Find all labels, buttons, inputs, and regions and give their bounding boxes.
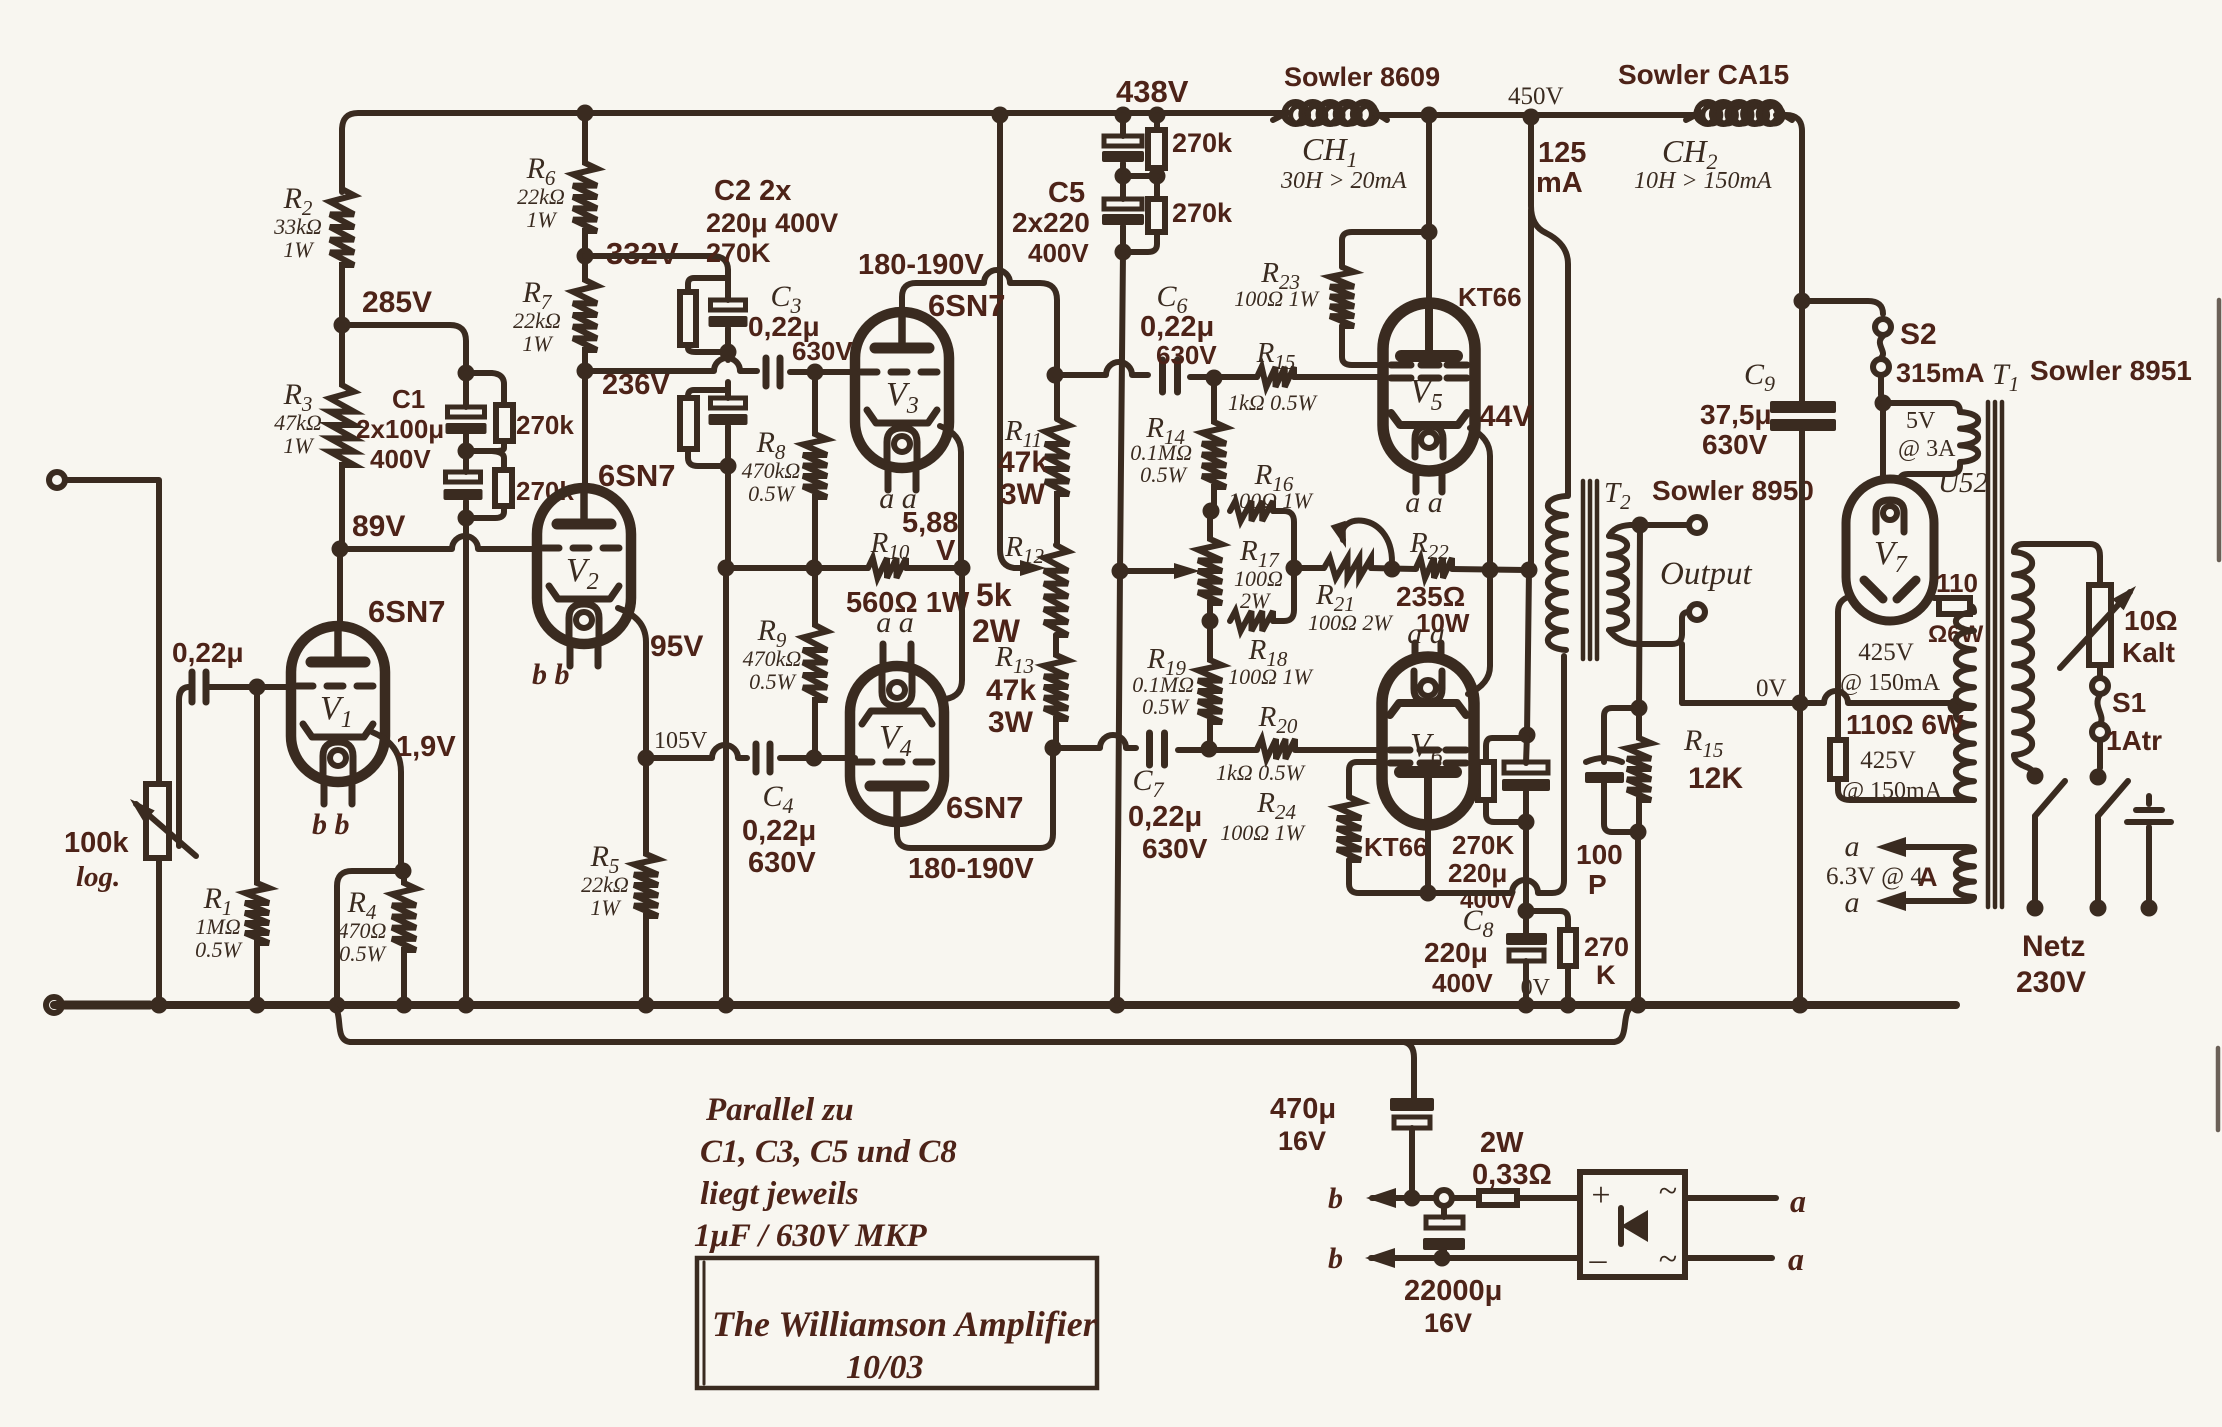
resistor 270k bleeder at C8 <box>1526 911 1568 930</box>
wire: heater loop 5V <box>1880 403 1886 479</box>
svg-text:37,5μ: 37,5μ <box>1700 399 1772 430</box>
transformer T1 HV winding <box>1956 612 1974 800</box>
svg-text:Parallel zu: Parallel zu <box>705 1092 854 1128</box>
svg-text:100k: 100k <box>64 827 129 859</box>
capacitor 100p <box>1604 708 1639 762</box>
resistor R3 47k <box>330 325 354 549</box>
svg-text:0.5W: 0.5W <box>1140 462 1188 487</box>
svg-text:0,33Ω: 0,33Ω <box>1472 1159 1552 1191</box>
wire: V4 anode line 180-190V <box>897 748 1053 848</box>
svg-text:0,22μ: 0,22μ <box>1140 311 1214 343</box>
svg-text:Kalt: Kalt <box>2122 637 2175 668</box>
svg-text:3W: 3W <box>1000 478 1046 511</box>
svg-text:a a: a a <box>876 606 914 639</box>
svg-text:@ 3A: @ 3A <box>1898 436 1956 462</box>
svg-text:22kΩ: 22kΩ <box>517 184 565 209</box>
svg-text:Output: Output <box>1660 556 1753 592</box>
svg-text:47kΩ: 47kΩ <box>274 410 322 435</box>
svg-text:270k: 270k <box>516 410 574 440</box>
svg-text:1W: 1W <box>283 237 314 262</box>
pot arrow R21 <box>1342 521 1392 562</box>
svg-text:1W: 1W <box>590 895 621 920</box>
title box The Williamson Amplifier <box>697 1258 1097 1388</box>
capacitor input 0.22u <box>189 672 196 702</box>
wire: 0V line to HV centre tap <box>1679 644 1685 703</box>
wire: 450V riser and T2 feed <box>1531 117 1568 496</box>
capacitor C8 220u 400V <box>1518 903 1535 920</box>
svg-text:a: a <box>1788 1241 1804 1277</box>
svg-text:2W: 2W <box>1240 588 1271 613</box>
svg-text:220μ: 220μ <box>1448 858 1507 888</box>
svg-text:0,22μ: 0,22μ <box>742 815 816 847</box>
svg-text:315mA: 315mA <box>1896 358 1985 388</box>
svg-text:470kΩ: 470kΩ <box>743 646 802 671</box>
resistor 270k at KT66 cathode <box>1486 738 1527 762</box>
resistor R21 100R 2W <box>1324 558 1371 578</box>
svg-text:89V: 89V <box>352 510 405 543</box>
wire: R15 12k column from output top <box>1639 525 1640 708</box>
svg-text:110Ω 6W: 110Ω 6W <box>1846 709 1964 740</box>
svg-text:630V: 630V <box>748 847 816 879</box>
wire: feedback return line <box>330 1005 1404 1042</box>
svg-text:0.5W: 0.5W <box>748 481 796 506</box>
wire: HT right riser to S2 <box>1794 293 1811 310</box>
svg-text:Netz: Netz <box>2022 930 2085 963</box>
svg-text:10H > 150mA: 10H > 150mA <box>1634 168 1772 194</box>
svg-text:30H > 20mA: 30H > 20mA <box>1280 168 1407 194</box>
svg-text:270K: 270K <box>706 238 771 268</box>
svg-text:a a: a a <box>1407 617 1445 650</box>
resistor R10 560R <box>868 558 906 578</box>
wire: 105V line to C4 <box>646 745 747 758</box>
svg-text:400V: 400V <box>1432 968 1493 998</box>
svg-text:47k: 47k <box>998 446 1048 479</box>
svg-text:log.: log. <box>76 861 120 893</box>
wire: screen line to R21 R22 <box>1294 565 1324 571</box>
tube V4 6SN7 <box>850 666 944 822</box>
capacitor C5 2x220 with 270k pair <box>1120 115 1126 136</box>
switch S1 1Atr <box>2097 665 2103 678</box>
svg-text:KT66: KT66 <box>1458 282 1522 312</box>
transformer T2 <box>1548 496 1566 650</box>
transformer T1 primary winding <box>2014 552 2032 755</box>
svg-text:95V: 95V <box>650 630 703 663</box>
resistor 110R 6W left <box>1830 740 1846 779</box>
resistor R19 0.1M <box>1198 621 1222 748</box>
svg-text:1W: 1W <box>522 331 553 356</box>
capacitor 22000u 16V <box>1441 1206 1447 1217</box>
svg-text:10/03: 10/03 <box>846 1349 923 1386</box>
svg-text:2W: 2W <box>1480 1127 1524 1159</box>
svg-text:–: – <box>1589 1241 1608 1278</box>
svg-text:100Ω 1W: 100Ω 1W <box>1220 820 1305 845</box>
resistor R23 100R 1W <box>1330 267 1354 326</box>
svg-text:2x220: 2x220 <box>1012 207 1090 238</box>
svg-text:a: a <box>1845 830 1860 863</box>
svg-text:b b: b b <box>532 658 570 691</box>
svg-text:22kΩ: 22kΩ <box>581 872 629 897</box>
capacitor C4 0.22u <box>753 744 760 772</box>
resistor R22 235R <box>1416 558 1452 578</box>
svg-text:0V: 0V <box>1521 975 1551 1001</box>
wire: V3 anode line 180-190V <box>902 270 1057 419</box>
tube V5 KT66 <box>1383 303 1475 471</box>
svg-text:1MΩ: 1MΩ <box>195 914 240 939</box>
svg-text:K: K <box>1596 960 1616 990</box>
rectifier V7 U52 <box>1846 479 1934 621</box>
svg-text:@ 150mA: @ 150mA <box>1840 670 1941 696</box>
wire: V7 left plate loop <box>1838 598 1846 740</box>
svg-text:a: a <box>1845 886 1860 919</box>
svg-text:425V: 425V <box>1860 747 1916 774</box>
svg-text:Sowler 8950: Sowler 8950 <box>1652 475 1814 506</box>
node 450V <box>1523 109 1540 126</box>
resistor R15 grid stopper 1k <box>1257 367 1294 387</box>
bridge rectifier <box>1580 1172 1685 1277</box>
svg-text:125: 125 <box>1538 137 1586 169</box>
resistor R6 22k <box>573 113 597 256</box>
resistor R9 470k <box>803 568 827 758</box>
svg-text:16V: 16V <box>1424 1308 1472 1338</box>
svg-text:33kΩ: 33kΩ <box>273 214 322 239</box>
resistor R24 100R 1W <box>1337 797 1361 860</box>
svg-text:6.3V @ 4: 6.3V @ 4 <box>1826 863 1923 890</box>
resistor R20 1k <box>1257 739 1295 759</box>
wire: top HT bus <box>342 113 1287 192</box>
wire: T1 primary top to thermistor <box>2014 544 2100 585</box>
wire: R12 wiper feed from HT bus <box>992 107 1009 124</box>
resistor R4 470R <box>392 871 416 1005</box>
wire: 332V to C2 chain <box>585 256 728 270</box>
resistor R16 100R 1W <box>1230 501 1273 521</box>
svg-text:425V: 425V <box>1858 639 1914 666</box>
node 89V (V1 anode) <box>332 541 349 558</box>
node 332V <box>577 248 594 265</box>
wire: R4 left branch to ground bus <box>337 871 403 1005</box>
potentiometer R12 5k 2W <box>1044 545 1068 635</box>
capacitor C3 0.22u <box>763 358 770 386</box>
svg-text:0.5W: 0.5W <box>749 669 797 694</box>
svg-text:5k: 5k <box>976 577 1012 613</box>
svg-text:180-190V: 180-190V <box>858 249 984 281</box>
svg-text:270k: 270k <box>1172 198 1233 228</box>
wire: screen divider feed arrow into R17 <box>1112 563 1129 580</box>
switch mains left pole <box>2027 768 2044 785</box>
wire: V6 anode to T2 primary bottom <box>1425 821 1431 893</box>
svg-text:16V: 16V <box>1278 1126 1326 1156</box>
node 285V <box>334 317 351 334</box>
wire: V5 cathode to screen line <box>1470 428 1490 570</box>
resistor R5 22k <box>634 758 658 1005</box>
tube V1 6SN7 <box>291 626 385 782</box>
wire: C5 ground drop <box>1120 252 1123 571</box>
wire: V1 anode lead <box>337 549 343 628</box>
svg-text:100Ω 1W: 100Ω 1W <box>1228 488 1313 513</box>
wire: C2 ground drop to bus <box>723 568 729 1005</box>
svg-text:630V: 630V <box>1156 340 1217 370</box>
wire: coupling line 236V - C3 - V3 grid <box>585 358 757 371</box>
capacitor 470u 16V <box>1390 1098 1434 1111</box>
transformer T1 core <box>1986 402 1991 907</box>
svg-text:6SN7: 6SN7 <box>946 790 1024 825</box>
capacitor C9 37.5u <box>1799 301 1805 403</box>
svg-text:@ 150mA: @ 150mA <box>1842 778 1943 804</box>
node 236V <box>577 363 594 380</box>
resistor R8 470k <box>803 372 827 568</box>
wire: bridge AC outputs to a <box>1685 1195 1776 1201</box>
svg-text:180-190V: 180-190V <box>908 853 1034 885</box>
svg-text:6SN7: 6SN7 <box>368 594 446 629</box>
svg-text:438V: 438V <box>1116 74 1189 109</box>
svg-text:S1: S1 <box>2112 687 2146 718</box>
svg-text:100: 100 <box>1576 839 1623 870</box>
capacitor C6 0.22u <box>1159 360 1166 392</box>
svg-text:12K: 12K <box>1688 762 1743 795</box>
svg-text:b: b <box>1328 1182 1343 1215</box>
svg-text:liegt jeweils: liegt jeweils <box>700 1176 859 1212</box>
svg-text:0,22μ: 0,22μ <box>1128 801 1202 833</box>
svg-text:105V: 105V <box>654 728 708 754</box>
wire: C1 chain down to ground bus <box>463 518 469 1005</box>
svg-text:3W: 3W <box>988 706 1034 739</box>
wire: V7 right plate to HV winding <box>1934 595 1939 601</box>
resistor R15 12k feedback <box>1627 708 1651 832</box>
svg-text:630V: 630V <box>792 336 853 366</box>
svg-text:22kΩ: 22kΩ <box>513 308 561 333</box>
svg-text:0.5W: 0.5W <box>339 941 387 966</box>
transformer T1 6.3V winding <box>1956 851 1974 897</box>
svg-text:100Ω 1W: 100Ω 1W <box>1228 664 1313 689</box>
svg-text:470kΩ: 470kΩ <box>742 458 801 483</box>
node R4 top <box>395 863 412 880</box>
capacitor KT66 cathode bypass 220u <box>1504 762 1548 773</box>
svg-text:C5: C5 <box>1048 177 1085 209</box>
svg-text:S2: S2 <box>1900 318 1937 351</box>
resistor R14 0.1M <box>1202 379 1226 511</box>
svg-text:110: 110 <box>1936 568 1978 598</box>
svg-text:470μ: 470μ <box>1270 1093 1336 1125</box>
potentiometer 100k log <box>49 472 65 488</box>
wire: C2 chain down to bias line <box>725 466 731 568</box>
wire: input cap to V1 grid <box>206 684 292 690</box>
svg-text:b b: b b <box>312 808 350 841</box>
svg-text:P: P <box>1588 869 1607 900</box>
svg-text:b: b <box>1328 1242 1343 1275</box>
svg-text:The Williamson Amplifier: The Williamson Amplifier <box>712 1304 1098 1344</box>
earth terminal <box>2146 827 2152 900</box>
wire: C6 line V3 top to V5 grid <box>1047 367 1064 384</box>
wire: V2 cathode to 105V node <box>618 608 646 758</box>
svg-text:1kΩ 0.5W: 1kΩ 0.5W <box>1216 760 1306 785</box>
svg-text:1W: 1W <box>283 433 314 458</box>
svg-text:+: + <box>1591 1177 1610 1214</box>
svg-text:C2 2x: C2 2x <box>714 175 791 207</box>
resistor R17 100R 2W <box>1198 511 1222 621</box>
svg-text:a a: a a <box>879 482 917 515</box>
svg-text:0,22μ: 0,22μ <box>172 637 244 668</box>
thermistor 10R kalt <box>2089 585 2111 665</box>
wire: 285V to C1 chain <box>342 325 466 373</box>
capacitor C7 0.22u <box>1146 733 1153 765</box>
svg-text:a a: a a <box>1405 486 1443 519</box>
svg-text:400V: 400V <box>1028 238 1089 268</box>
tube V6 KT66 <box>1382 657 1474 825</box>
wire: bias b-line lower <box>1365 1248 1395 1268</box>
resistor R1 1M <box>245 687 269 1005</box>
svg-text:44V: 44V <box>1479 400 1532 433</box>
svg-text:1W: 1W <box>526 207 557 232</box>
svg-text:470Ω: 470Ω <box>338 918 387 943</box>
wire: T1 primary bottom to left pole <box>2014 755 2035 776</box>
svg-text:450V: 450V <box>1508 83 1564 110</box>
svg-text:10Ω: 10Ω <box>2124 605 2178 636</box>
svg-text:630V: 630V <box>1142 833 1208 864</box>
resistor R2 33k <box>330 150 354 325</box>
wire: ground bus <box>54 1001 1956 1009</box>
svg-text:630V: 630V <box>1702 429 1768 460</box>
svg-text:270: 270 <box>1584 932 1629 962</box>
svg-text:Sowler 8951: Sowler 8951 <box>2030 355 2192 386</box>
resistor R18 100R 1W <box>1230 611 1273 631</box>
resistor R11 47k 3W <box>1045 419 1069 545</box>
svg-text:1,9V: 1,9V <box>396 731 456 763</box>
tube V2 6SN7 <box>537 488 631 644</box>
scan edge artifact <box>2217 300 2222 560</box>
resistor 0.33R 2W <box>1479 1191 1517 1205</box>
svg-text:270K: 270K <box>1452 830 1514 860</box>
node 438V <box>1115 107 1132 124</box>
svg-text:1kΩ 0.5W: 1kΩ 0.5W <box>1228 390 1318 415</box>
wire: bias b-line upper <box>1366 1188 1396 1208</box>
svg-text:270k: 270k <box>1172 128 1233 158</box>
svg-text:Sowler 8609: Sowler 8609 <box>1284 62 1440 92</box>
svg-text:285V: 285V <box>362 286 432 319</box>
svg-text:~: ~ <box>1659 1241 1677 1278</box>
resistor R7 22k <box>573 256 597 371</box>
svg-text:1μF / 630V MKP: 1μF / 630V MKP <box>694 1218 927 1254</box>
wire: V2 anode lead <box>582 371 588 490</box>
wire: bias line R8/R9/R10 <box>728 565 868 571</box>
resistor 110R 6W right <box>1939 598 1970 614</box>
svg-text:230V: 230V <box>2016 966 2086 999</box>
tube V3 6SN7 <box>855 312 949 468</box>
svg-text:A: A <box>1918 862 1938 892</box>
svg-text:C1, C3, C5 und C8: C1, C3, C5 und C8 <box>700 1134 957 1170</box>
svg-text:47k: 47k <box>986 674 1036 707</box>
svg-text:2x100μ: 2x100μ <box>356 414 444 444</box>
choke CH1 <box>1273 112 1287 120</box>
svg-text:5V: 5V <box>1906 408 1936 434</box>
svg-text:C1: C1 <box>392 384 425 414</box>
svg-text:100Ω 1W: 100Ω 1W <box>1234 286 1319 311</box>
wire: V3 cathode down to bias line <box>940 426 961 568</box>
svg-text:22000μ: 22000μ <box>1404 1275 1502 1307</box>
svg-text:220μ: 220μ <box>1424 937 1488 968</box>
wire: 450V down to cathode caps and C8 <box>1527 570 1529 735</box>
wire: 89V line to V2 grid <box>340 536 538 549</box>
svg-text:0.5W: 0.5W <box>195 937 243 962</box>
fuse switch S2 315mA <box>1875 319 1891 335</box>
svg-text:400V: 400V <box>370 444 431 474</box>
svg-text:Sowler CA15: Sowler CA15 <box>1618 59 1789 90</box>
wire: V5 anode to HT bus <box>1426 115 1432 303</box>
svg-text:a: a <box>1790 1183 1806 1219</box>
choke CH2 <box>1686 112 1700 120</box>
wire: T2 secondary top to output <box>1609 525 1689 536</box>
svg-text:KT66: KT66 <box>1364 832 1428 862</box>
wire: C7 line V4 bottom to V6 grid <box>1045 740 1062 757</box>
capacitor C1 2x100u with 270k pair <box>458 365 475 382</box>
svg-text:mA: mA <box>1536 167 1583 199</box>
wire: 6.3V leads to a <box>1898 847 1974 851</box>
wire: T2 secondary bottom to output <box>1609 612 1689 644</box>
switch mains right pole <box>2090 769 2107 786</box>
svg-text:6SN7: 6SN7 <box>928 288 1006 323</box>
svg-text:0.5W: 0.5W <box>1142 694 1190 719</box>
wire: V4 cathode up to bias line <box>946 568 962 699</box>
svg-text:0V: 0V <box>1756 675 1787 702</box>
wire: V6 cathode to screen line <box>1468 570 1490 694</box>
resistor R13 47k 3W <box>1044 635 1068 748</box>
wire: V1 cathode to 1.9V node <box>372 732 401 871</box>
svg-text:6SN7: 6SN7 <box>598 458 676 493</box>
svg-text:100Ω 2W: 100Ω 2W <box>1308 610 1393 635</box>
svg-text:V: V <box>936 535 956 567</box>
svg-text:~: ~ <box>1659 1173 1677 1210</box>
capacitor C2 chain (2x 220u + 270k) <box>725 270 731 300</box>
svg-text:220μ 400V: 220μ 400V <box>706 208 838 238</box>
svg-text:1Atr: 1Atr <box>2106 725 2162 756</box>
